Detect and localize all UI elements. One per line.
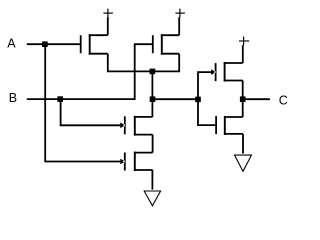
wire input B horizontal, riser up to Q2 gate lead xyxy=(27,44,153,99)
wire Q4 source down to ground 1 xyxy=(151,170,153,190)
node NAND junction on bus xyxy=(150,69,156,75)
power VDD plus symbol 1 xyxy=(103,9,113,18)
node NAND junction mid xyxy=(150,96,156,102)
wire Q5 source to VDD xyxy=(242,45,244,63)
transistor Q5 (inverter PMOS) xyxy=(211,62,243,82)
svg-text:B: B xyxy=(9,91,17,105)
svg-text:C: C xyxy=(279,94,288,108)
power VDD plus symbol 3 xyxy=(239,37,249,46)
wire inverter output column (Q5 drain to Q6 drain) xyxy=(242,81,244,118)
wire input A horizontal to Q1 gate xyxy=(27,43,80,45)
wire NAND node bus (Q1 drain to Q2 drain) xyxy=(108,54,179,72)
transistor Q6 (inverter NMOS) xyxy=(216,116,243,135)
node C label xyxy=(279,94,288,108)
ground symbol 1 xyxy=(144,191,160,206)
node A junction xyxy=(42,41,48,47)
wire Q1 source to VDD xyxy=(107,17,109,35)
wire Q2 source to VDD xyxy=(178,17,180,35)
node B label xyxy=(9,91,17,105)
transistor Q4 (NMOS, gate A) xyxy=(120,152,152,171)
transistor Q2 (PMOS, gate B) xyxy=(153,34,179,55)
wire Q6 source down to ground 2 xyxy=(242,134,244,154)
ground symbol 2 xyxy=(235,155,252,171)
power VDD plus symbol 2 xyxy=(175,9,185,18)
wire Q3 source to Q4 drain xyxy=(152,135,154,153)
node A label xyxy=(7,36,16,50)
wire output to C xyxy=(243,98,270,100)
node B junction xyxy=(57,96,63,102)
wire A drop down and right to Q4 gate xyxy=(45,44,124,161)
svg-text:A: A xyxy=(7,36,16,50)
wire NAND node drop to Q3 drain xyxy=(151,71,153,117)
wire NAND node to inverter input xyxy=(153,98,199,100)
wire B drop down and right to Q3 gate xyxy=(61,99,124,125)
transistor Q3 (NMOS, gate B) xyxy=(120,116,152,136)
node inverter input junction xyxy=(195,97,201,103)
transistor Q1 (PMOS, gate A) xyxy=(81,34,108,55)
node output junction xyxy=(240,96,246,102)
wire inverter input riser with gate leads to Q5 and Q6 xyxy=(198,72,215,125)
